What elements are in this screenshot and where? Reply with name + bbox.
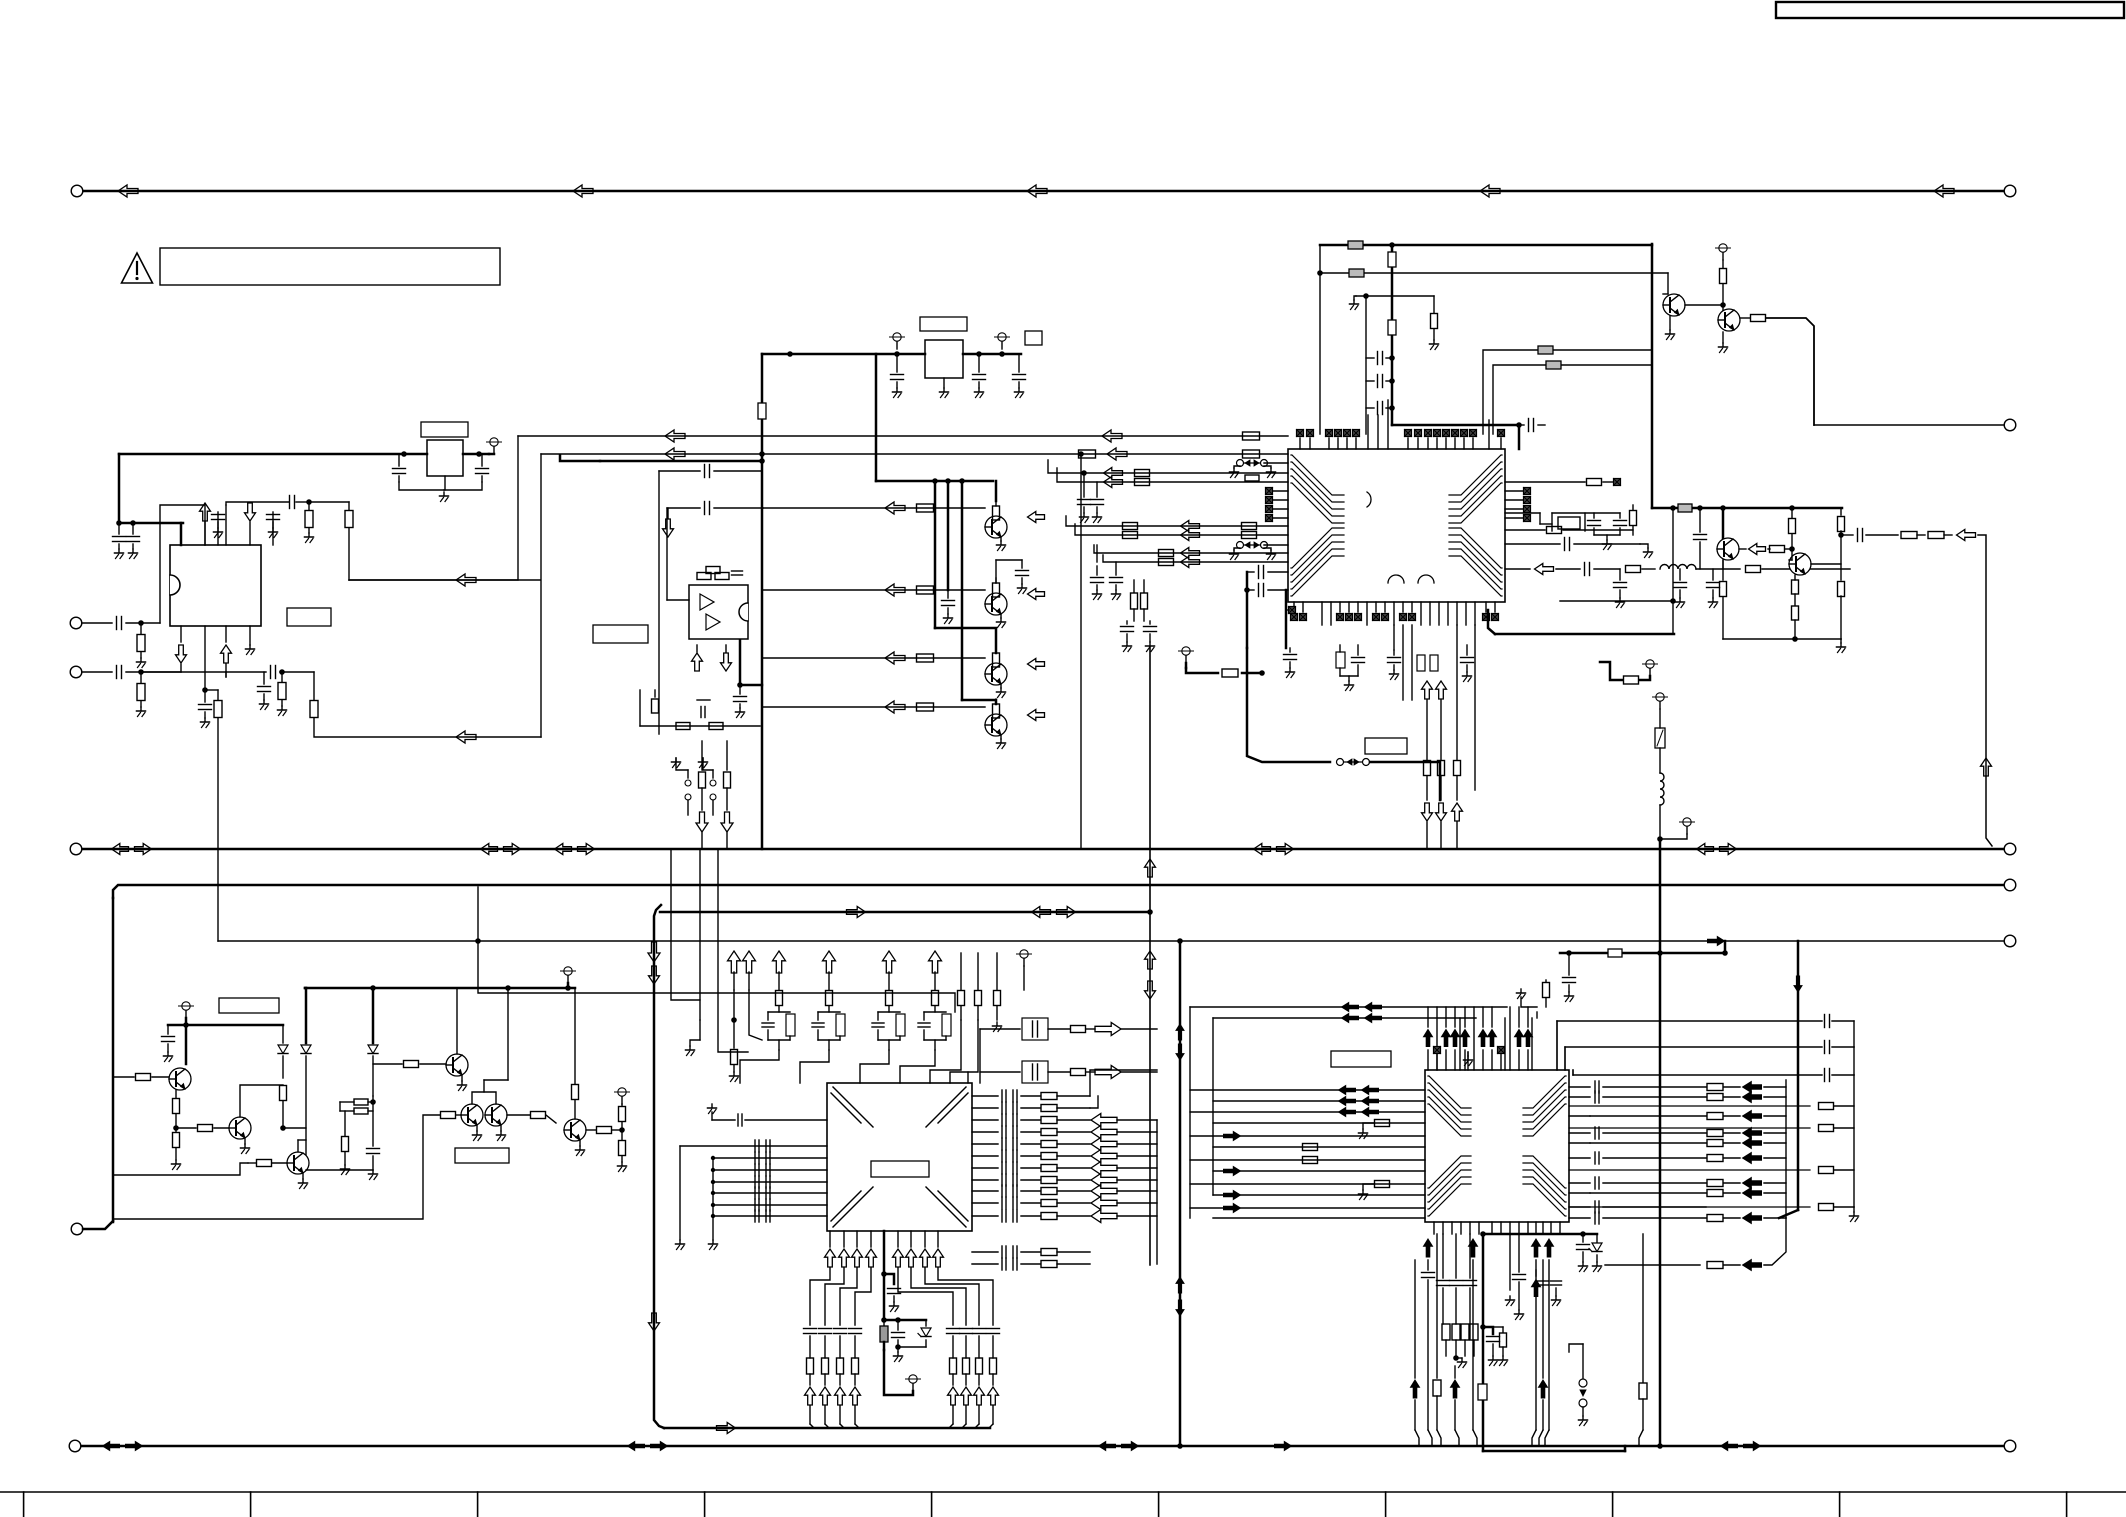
pin arrow U5-bb2 — [1451, 1366, 1460, 1430]
pin arrow b-d2 — [1436, 803, 1447, 849]
arrow U5 lrowL-1 — [1339, 1086, 1379, 1095]
wire U5 lrow11 — [1190, 1207, 1425, 1209]
capacitor C-op1 — [705, 465, 763, 478]
arrow loop-bot — [717, 1423, 736, 1434]
crystal X1 — [1540, 513, 1585, 531]
node lrow6 — [711, 1214, 715, 1218]
resistor R-bb1 — [1433, 1234, 1441, 1430]
warning triangle — [122, 253, 153, 283]
capacitor C-rail2 — [942, 590, 955, 624]
resistor R-1841b — [1838, 535, 1845, 639]
node x762cross — [759, 451, 765, 457]
wire U5 tpin4b — [1464, 1007, 1466, 1027]
wire U1 pin t1 — [180, 523, 183, 545]
resistor R-y953 — [1608, 949, 1622, 957]
node TCm — [370, 1099, 376, 1105]
wire U5 rrow7 — [1569, 1177, 1706, 1189]
resistor R-x762 — [758, 403, 766, 419]
power flag x1660 — [1653, 693, 1668, 709]
resistor R-in1 — [137, 623, 145, 658]
wire rail drop1 — [934, 481, 937, 628]
capacitor C-col3 — [1464, 1234, 1477, 1324]
node b2 — [202, 687, 208, 693]
resistor R-op4 — [652, 690, 659, 713]
wire U3 lrow6 — [713, 1215, 827, 1217]
resistor R-U3c — [880, 1320, 888, 1350]
capacitor C-op2 — [705, 502, 764, 515]
resistor R502a — [305, 502, 314, 543]
wire y1021 — [1557, 1020, 1822, 1022]
wire lad-in1 — [671, 849, 700, 1000]
wire lad1 — [733, 972, 735, 990]
arrow row535 — [1957, 530, 1976, 541]
capacitor C-569c — [1674, 569, 1687, 608]
capacitor C-reg2a — [393, 454, 406, 482]
wire y569 end — [1722, 560, 1724, 569]
wire U3 lrow3 — [713, 1181, 827, 1183]
wire U5 riser1 — [1556, 1021, 1558, 1070]
pin arrow U3bb5 — [948, 1387, 959, 1428]
node rail508d — [1789, 505, 1795, 511]
resistor R-Qc4 — [993, 699, 1000, 718]
wire U5 brail — [1483, 1233, 1583, 1236]
wire U1 pin t4 — [225, 505, 227, 545]
wire thick x1247 — [1246, 572, 1249, 648]
wire U5 riser3 — [1572, 1070, 1574, 1075]
resistor R482r — [1587, 479, 1621, 486]
mid bus arrow pair 5 — [1697, 844, 1737, 855]
node reg1c — [976, 351, 982, 357]
resistor R-x1392b — [1388, 320, 1396, 335]
resistor R-569b — [1746, 566, 1851, 573]
node rail508c — [1720, 505, 1726, 511]
label U3 part box — [871, 1161, 929, 1177]
wire U3 rrow6 — [972, 1150, 1090, 1162]
wire U3 bpin3 — [856, 1231, 858, 1247]
node U3c3 — [895, 1317, 901, 1323]
capacitor C-lrow4 — [755, 1187, 770, 1199]
node vdd1 — [116, 520, 122, 526]
wire lad2 — [748, 972, 750, 990]
wire strap1610 — [1600, 662, 1650, 684]
wire lad-in2 — [699, 849, 701, 1020]
transistor Q15 — [485, 1104, 507, 1126]
wire row569b — [1556, 568, 1580, 570]
resistor R-U5r6 — [1707, 1155, 1723, 1162]
wire lad zig2 — [800, 1050, 829, 1083]
diode D-U3c — [898, 1320, 931, 1347]
wire thick x1286 — [1285, 590, 1288, 648]
ic U3 body — [827, 1083, 972, 1231]
pin arrow U3-b8 — [920, 1249, 931, 1267]
transistor Q4 — [985, 714, 1007, 736]
pin arrow U3-b4 — [866, 1249, 877, 1267]
resistor R526b — [1242, 523, 1257, 530]
resistor R-Q10a — [173, 1090, 180, 1128]
arrow U3 rrow9 — [1091, 1210, 1157, 1223]
capacitor C-U5c1 — [1422, 1260, 1435, 1430]
wire thick x1652 — [1651, 244, 1654, 508]
frame tick 2 — [250, 1492, 252, 1517]
wire row502 — [226, 502, 289, 505]
wire row482 — [1057, 468, 1288, 482]
wire oploop top — [659, 471, 700, 734]
wire thick x762 — [761, 354, 764, 849]
label box TC2 — [455, 1148, 509, 1163]
wire U5 thickL — [1482, 1234, 1485, 1451]
frame tick 8 — [1612, 1492, 1614, 1517]
resistor R-TC3 — [280, 1086, 287, 1129]
resistor R-in2 — [137, 672, 145, 707]
resistor R-U5l1 — [1375, 1120, 1390, 1127]
top bus arrow 1 — [118, 185, 138, 197]
wire U3 bzig2 — [825, 1268, 844, 1325]
arrow y737 — [456, 731, 476, 743]
wire U3c down — [884, 1350, 913, 1395]
capacitor C-mid2 — [1506, 1234, 1515, 1306]
wire U3 bpin4 — [870, 1231, 872, 1247]
wire x1519 — [1518, 425, 1521, 449]
node op-g — [737, 682, 743, 688]
frame tick 9 — [1839, 1492, 1841, 1517]
resistor R-TCm1 — [340, 1099, 373, 1105]
wire lad zig1 — [740, 1050, 779, 1083]
mid bus arrow pair 1 — [112, 844, 152, 855]
resistor R-Q10b — [172, 1128, 181, 1170]
power flag U3c — [906, 1375, 921, 1391]
capacitor C-569b — [1614, 569, 1627, 608]
arrow U5 rrow-7 — [1724, 1178, 1786, 1189]
resistor R-1434 — [1430, 296, 1439, 350]
resistor R-lad2 — [826, 991, 833, 1013]
resistor R-TCm2 — [340, 1108, 373, 1114]
resistor R-op3 — [676, 723, 723, 730]
wire x1673 — [1672, 508, 1674, 634]
capacitor C-lrow1 — [755, 1152, 770, 1164]
capacitor C-U3b3 — [834, 1329, 847, 1386]
resistor R677 — [278, 672, 287, 716]
resistor R-Qc2 — [993, 578, 1000, 597]
capacitor C482 — [1091, 482, 1104, 523]
capacitor C677 — [258, 672, 271, 710]
small box IC3r — [1025, 331, 1042, 345]
arrow x1180d — [1176, 1300, 1184, 1316]
pin arrow U5-b2 — [1469, 1239, 1478, 1430]
wire Q10 col — [185, 1025, 188, 1064]
pin arrow b-u2 — [1436, 681, 1447, 699]
ground c-vdd1 — [115, 549, 124, 559]
ground 544 — [1640, 544, 1653, 558]
wire row677b — [226, 666, 314, 679]
wire row350 — [1483, 350, 1652, 434]
wire row553 — [1094, 545, 1288, 553]
wire U3 bpin6 — [897, 1231, 899, 1247]
wire U5 tpin5b — [1482, 1007, 1484, 1027]
frame tick 7 — [1385, 1492, 1387, 1517]
wire row530r — [1505, 527, 1633, 534]
wire U5 ytop1 — [1190, 1006, 1507, 1008]
net B arrow — [1708, 937, 1725, 946]
capacitor C-reg1c — [1013, 354, 1026, 398]
pin arrow lad1 — [728, 951, 741, 973]
wire lad5 — [888, 972, 890, 990]
node TCb1 — [370, 985, 376, 991]
node y953b — [1722, 950, 1728, 956]
frame tick 6 — [1158, 1492, 1160, 1517]
label box strap — [1365, 738, 1407, 754]
wire U5 lrow3 — [1190, 1111, 1425, 1113]
wire xtal row — [1552, 512, 1620, 514]
ground U5col — [1456, 1358, 1467, 1368]
resistor R-1792 — [1789, 508, 1796, 549]
arrow U5 t2 — [1442, 1030, 1451, 1047]
ground U5t — [1464, 1052, 1473, 1070]
wire row509r — [1505, 506, 1531, 513]
ic U2 bottom marks — [1388, 575, 1434, 583]
node q9r — [1789, 546, 1795, 552]
wire U3 bpin7 — [910, 1231, 912, 1247]
arrow row473 — [1104, 468, 1123, 479]
pin arrow U1-b3 — [221, 626, 232, 677]
resistor R-qrow1 — [917, 504, 934, 512]
wire mid-left2 — [83, 1221, 113, 1229]
capacitor C-x1a — [1588, 513, 1601, 535]
wire row535 — [1075, 524, 1288, 535]
wire row544r — [1505, 543, 1560, 545]
capacitor C-mid1 — [1513, 1234, 1526, 1320]
wire U5 tpin2b — [1445, 1007, 1447, 1027]
capacitor C553 — [1096, 545, 1098, 562]
wire U5 rrow5 — [1569, 1142, 1706, 1144]
wire U5 tpin5 — [1482, 1050, 1484, 1070]
resistor R-row365 — [1546, 361, 1561, 369]
arrow qrow1 — [885, 502, 905, 514]
pin arrow U3-b2 — [839, 1249, 850, 1267]
capacitor C-x1290 — [1284, 648, 1297, 678]
wire U5 tpin1 — [1427, 1050, 1429, 1070]
capacitor C-1380b — [1366, 375, 1395, 388]
wire U3 rrow11 — [972, 1210, 1090, 1222]
wire row562 — [1103, 555, 1288, 562]
resistor R436b — [1243, 432, 1260, 440]
capacitor C-U3b6 — [960, 1329, 973, 1386]
pin arrow U1-b1 — [176, 626, 187, 672]
wire x1986 — [1978, 535, 1992, 846]
wire x1660 mid — [1659, 839, 1662, 1446]
capacitor C-lad3 — [872, 1012, 905, 1050]
ic U2 top pins plain — [1368, 400, 1489, 449]
arrow U3 rrow5 — [1091, 1162, 1157, 1175]
jumper J-op2 — [710, 770, 716, 815]
resistor R-col3 — [1461, 1324, 1469, 1356]
resistor R-U5r7 — [1707, 1180, 1723, 1187]
resistor R-U5l2 — [1375, 1181, 1390, 1188]
wire lad zig3 — [860, 1050, 889, 1083]
capacitor C-y1075 — [1825, 1069, 1855, 1082]
wire strap flag — [1186, 668, 1262, 677]
capacitor C-x1247a — [1247, 566, 1288, 579]
capacitor C-op5 — [734, 685, 747, 718]
wire U5 tpin2 — [1445, 1050, 1447, 1070]
wire Q12 col — [298, 1140, 306, 1152]
wire U3 bzig1 — [810, 1268, 830, 1325]
ground U1-b4 — [246, 626, 255, 655]
arrow y454a — [665, 448, 685, 460]
pin arrow opv1 — [696, 812, 708, 849]
wire U3c batt — [884, 1319, 926, 1322]
node U5col — [1453, 1355, 1459, 1361]
wire U3 rrow12 — [972, 1246, 1090, 1258]
arrow U5 rrow-8 — [1724, 1188, 1786, 1199]
wire IN1 — [82, 617, 160, 630]
capacitor C-U3tl — [712, 1114, 827, 1126]
wire U3 bzig7 — [925, 1268, 979, 1325]
pin arrow U3-b3 — [852, 1249, 863, 1267]
label U5 box — [1331, 1051, 1391, 1067]
wire vfeed1 — [1131, 580, 1138, 621]
diode D-TC3 — [368, 988, 378, 1096]
capacitor C-U5z1 — [1577, 1234, 1590, 1272]
node y296 — [1363, 293, 1369, 299]
ground rail639 — [1837, 639, 1846, 653]
wire rail drop3 — [961, 481, 964, 700]
capacitor C-lad1 — [762, 1012, 795, 1050]
arrow row526 — [1181, 521, 1200, 532]
wire y454 right — [541, 453, 1288, 455]
capacitor C-U3c — [884, 1274, 901, 1312]
node n473 — [1081, 470, 1087, 476]
wire vcc drop — [118, 454, 121, 523]
transistor Q16 — [564, 1119, 586, 1141]
arrow U5 lrowL-3 — [1339, 1108, 1379, 1117]
off-page connector R425 — [2004, 419, 2016, 431]
off-page connector mid-right — [2004, 843, 2016, 855]
xpad U5t1 — [1434, 1047, 1441, 1071]
node rail508b — [1697, 505, 1703, 511]
wire lad2-3 — [994, 953, 1001, 1020]
resistor R-TCm3 — [341, 1111, 350, 1175]
node rail639 — [1792, 636, 1798, 642]
wire bottom bus — [81, 1445, 2004, 1448]
wire thick y245 — [1320, 244, 1652, 247]
wire Q10 right — [1811, 563, 1841, 565]
capacitor C-vf1 — [1121, 621, 1134, 652]
wire x1366 — [1365, 296, 1367, 434]
jumper J-op1 — [685, 770, 691, 815]
node lad1 — [731, 1017, 737, 1023]
node reg2-l — [401, 451, 407, 457]
node strap — [1259, 670, 1265, 676]
wire U3 rrow1 — [972, 1090, 1090, 1102]
capacitor C-y1021 — [1825, 1015, 1855, 1048]
node reg1a — [787, 351, 793, 357]
wire U3 bpin5 — [883, 1231, 886, 1274]
wire U3 rrow4 — [972, 1126, 1090, 1138]
capacitor C-op3 — [732, 571, 743, 575]
node Q10e — [173, 1125, 179, 1131]
pin arrow U3bb7 — [974, 1387, 985, 1428]
wire pair out — [507, 1112, 556, 1124]
wire row677 — [141, 672, 226, 677]
arrow U5 lrow-1 — [1224, 1132, 1241, 1141]
capacitor C-y953 — [1563, 953, 1576, 1002]
wire U5 rrow3 — [1569, 1115, 1706, 1117]
capacitor C-lad4 — [918, 1012, 951, 1050]
arrow x1986 — [1981, 758, 1992, 776]
power flag reg1b — [995, 333, 1010, 349]
node n1673 — [1670, 598, 1676, 604]
wire y953 thick — [1560, 952, 1725, 955]
resistor R-U5rr1 — [1569, 1103, 1854, 1110]
wire thick y634 — [1495, 633, 1674, 636]
wire U5 tpin3b — [1454, 1007, 1456, 1027]
wire U5 ytop2 — [1213, 1017, 1476, 1019]
node lrow4 — [711, 1191, 715, 1195]
pin arrow op-u — [692, 645, 703, 671]
wire x1320 — [1319, 245, 1321, 434]
wire row491r — [1505, 488, 1531, 495]
wire row526 — [1066, 516, 1288, 526]
capacitor C-vf2 — [1144, 621, 1157, 652]
ground Q12 — [299, 1174, 308, 1189]
wire U5 tpin6 — [1491, 1050, 1493, 1070]
resistor R-U5r1 — [1707, 1084, 1723, 1091]
ground Q16 — [576, 1141, 585, 1156]
capacitor C562 — [1110, 562, 1123, 600]
wire U5 triser — [1437, 1007, 1532, 1070]
wire vcc thick — [119, 453, 489, 456]
power flag lad — [1017, 950, 1032, 990]
node U5b2 — [1580, 1231, 1586, 1237]
wire U5 rrow-last — [1605, 1218, 1786, 1271]
resistor R-qrow3 — [917, 654, 934, 662]
bottom bus arrow pair 4 — [1721, 1442, 1761, 1451]
wire q2top rail — [996, 559, 1022, 561]
transistor Q3 — [985, 663, 1007, 685]
wire x518 — [349, 436, 518, 580]
ic U5 body — [1425, 1070, 1569, 1222]
arrow U5 t3 — [1451, 1030, 1460, 1047]
wire row518r — [1505, 515, 1531, 522]
ground J-ic1a-l — [1230, 466, 1241, 478]
capacitor C-vdd2 — [127, 523, 140, 549]
wire x1798b — [1779, 1210, 1798, 1218]
wire y1021 risers — [1557, 1021, 1573, 1075]
transistor Q13 — [446, 1054, 468, 1076]
wire U5 rrow9 — [1569, 1201, 1706, 1213]
wire U3 bzig5 — [898, 1268, 953, 1325]
wire rail639 — [1723, 638, 1841, 640]
wire thick x1392 — [1391, 245, 1394, 425]
wire U5 rrow8 — [1569, 1192, 1706, 1194]
wire op bottom — [640, 690, 760, 726]
capacitor C-U3b7 — [973, 1329, 986, 1386]
capacitor C502 — [290, 496, 310, 509]
diode D-TC2 — [301, 988, 311, 1170]
arrow U5 t5 — [1479, 1030, 1488, 1047]
label box TC — [219, 998, 279, 1013]
wire U5 riser2 — [1564, 1047, 1566, 1070]
wire U3 bzig3 — [840, 1268, 857, 1325]
label IC2 box — [421, 422, 468, 437]
pin arrow U3bb6 — [961, 1387, 972, 1428]
wire row502b — [309, 501, 349, 503]
capacitor C-lad2 — [812, 1012, 845, 1050]
wire row473 — [1048, 460, 1288, 473]
capacitor C-lrow5 — [755, 1199, 770, 1211]
wire lad2-2 — [975, 953, 982, 1020]
wire U5 lv1 — [1189, 1007, 1191, 1218]
